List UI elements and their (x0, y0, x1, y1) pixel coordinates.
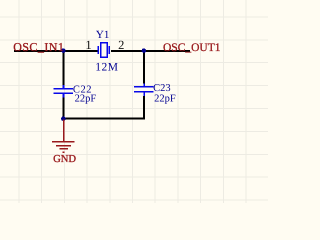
junction node C (ground rail) (61, 116, 66, 121)
svg-text:2: 2 (118, 38, 124, 52)
svg-text:22pF: 22pF (154, 93, 176, 104)
power port GND (52, 120, 75, 153)
svg-text:Y1: Y1 (96, 29, 109, 41)
svg-text:1: 1 (85, 38, 91, 52)
crystal Y1 body (98, 43, 110, 58)
wire W3 vertical from node A down to C22 (63, 50, 65, 85)
junction node A (61, 48, 66, 53)
svg-text:OSC_OUT1: OSC_OUT1 (163, 42, 221, 54)
svg-text:GND: GND (53, 154, 76, 165)
svg-text:OSC_IN1: OSC_IN1 (13, 40, 64, 54)
svg-text:22pF: 22pF (75, 94, 97, 105)
junction node B (142, 48, 147, 53)
wire W7 bottom rail (63, 118, 146, 120)
wire W6 vertical C23 bottom to bottom rail (143, 96, 145, 120)
wire W4 vertical C22 bottom to bottom rail (63, 98, 65, 120)
capacitor C23 (134, 83, 153, 96)
wire W5 vertical from node B down to C23 (143, 50, 145, 84)
capacitor C22 (54, 85, 73, 98)
svg-text:12M: 12M (95, 61, 118, 73)
wire W1 OSC_IN to Y1 pin1 (14, 50, 98, 52)
wire W2 Y1 pin2 to OSC_OUT (111, 50, 190, 52)
